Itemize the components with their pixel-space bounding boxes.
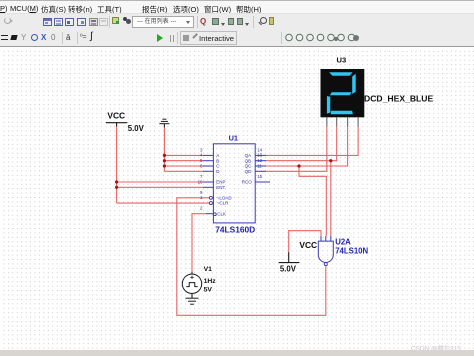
wire QC to display pin3: [266, 126, 348, 166]
U1 body: [213, 144, 255, 223]
V1 plus sign: [190, 276, 193, 279]
wire QB tap to NAND input3: [330, 161, 332, 236]
svg-text:U1: U1: [229, 134, 238, 143]
svg-text:ENT: ENT: [216, 185, 225, 190]
wire NAND in1 from VCC2: [289, 231, 321, 253]
svg-text:QB: QB: [245, 158, 252, 163]
svg-text:74LS160D: 74LS160D: [215, 225, 255, 235]
play / pause / stop / interactive: [157, 34, 163, 42]
svg-text:~CLR: ~CLR: [217, 201, 229, 206]
svg-text:14: 14: [257, 147, 262, 152]
svg-text:CLK: CLK: [217, 211, 226, 216]
node GND/C junction: [163, 164, 166, 167]
V1 body: [182, 274, 201, 293]
pin bubble CLK: [213, 213, 216, 216]
U1 right pin stubs: [255, 155, 270, 182]
wire GND to C: [164, 165, 203, 167]
svg-text:5.0V: 5.0V: [280, 265, 297, 274]
in-use-list dropdown: [132, 16, 194, 28]
U2A output bubble: [324, 263, 327, 266]
node VCC/ENP junction: [115, 180, 118, 183]
wire VCC to ~CLR: [117, 202, 210, 204]
wire VCC to ENT: [117, 186, 203, 188]
U1 pin numbers: [198, 147, 263, 210]
segment g: [330, 92, 352, 95]
status bar: [0, 350, 474, 356]
svg-text:5V: 5V: [204, 286, 213, 293]
node GND/A junction: [163, 154, 166, 157]
svg-text:U3: U3: [337, 55, 347, 64]
U2A body: [318, 241, 333, 262]
menu bar: [0, 1, 474, 13]
wire NAND output loop to ~LOAD: [177, 198, 326, 315]
wire GND to B: [164, 160, 203, 162]
svg-text:DCD_HEX_BLUE: DCD_HEX_BLUE: [364, 94, 434, 104]
wire QA to display pin4: [266, 126, 359, 155]
segment e: [327, 96, 330, 114]
wire QD to display pin1: [266, 126, 327, 171]
svg-text:74LS10N: 74LS10N: [335, 247, 368, 256]
display U3 body: [321, 69, 365, 117]
toolbar row 2: [0, 29, 474, 47]
svg-text:B: B: [216, 158, 219, 163]
wire GND to A: [164, 154, 203, 156]
node GND/B junction: [163, 159, 166, 162]
svg-text:V1: V1: [204, 266, 213, 273]
svg-text:10: 10: [198, 179, 203, 184]
svg-text:VCC: VCC: [299, 240, 317, 250]
wire QB to display pin2: [266, 126, 337, 161]
svg-text:12: 12: [257, 158, 262, 163]
svg-text:15: 15: [257, 174, 262, 179]
display pins: [327, 117, 358, 126]
ground GND1 (flipped, above ABCD net): [159, 119, 169, 127]
wire ground to ABCD vertical: [163, 127, 165, 171]
svg-text:ENP: ENP: [216, 180, 225, 185]
power VCC2 symbol (at gate): [279, 252, 300, 262]
junction dots: [115, 154, 332, 189]
svg-text:VCC: VCC: [107, 110, 125, 120]
toolbar row 1: [0, 13, 474, 29]
svg-text:13: 13: [257, 153, 262, 158]
window top edge: [0, 0, 474, 2]
instrument circles: [285, 33, 359, 42]
segment a: [329, 72, 352, 76]
wire GND to D: [164, 170, 203, 172]
svg-text:U2A: U2A: [335, 237, 351, 246]
V1 square wave glyph: [186, 283, 197, 287]
U1 left pin stubs: [203, 155, 213, 213]
svg-text:QA: QA: [245, 153, 252, 158]
wire CLK to V1: [192, 214, 206, 272]
pin bubble ~CLR: [209, 202, 212, 205]
power VCC1 symbol: [106, 123, 128, 127]
pin bubble ~LOAD: [209, 196, 212, 199]
ground GND2 (below V1): [186, 298, 199, 304]
svg-text:QC: QC: [245, 164, 253, 169]
svg-text:RCO: RCO: [242, 180, 252, 185]
wire VCC net vertical: [116, 126, 118, 203]
svg-text:1Hz: 1Hz: [204, 278, 217, 285]
wire VCC to ENP: [117, 181, 203, 183]
segment b: [352, 74, 356, 94]
svg-text:11: 11: [257, 163, 262, 168]
U1 pin names: [216, 153, 252, 216]
segment d: [331, 111, 353, 114]
svg-text:A: A: [216, 153, 219, 158]
svg-text:5.0V: 5.0V: [128, 124, 145, 133]
node VCC/ENT junction: [115, 186, 118, 189]
V1 bottom stub: [191, 294, 193, 299]
svg-text:~LOAD: ~LOAD: [217, 195, 233, 200]
U2A input stubs: [321, 236, 331, 266]
V1 top stub: [191, 272, 193, 274]
node QB/NAND junction: [329, 159, 332, 162]
node QC/NAND junction: [297, 164, 300, 167]
wire QC tap jog to NAND input2: [299, 166, 326, 236]
svg-text:QD: QD: [245, 169, 253, 174]
